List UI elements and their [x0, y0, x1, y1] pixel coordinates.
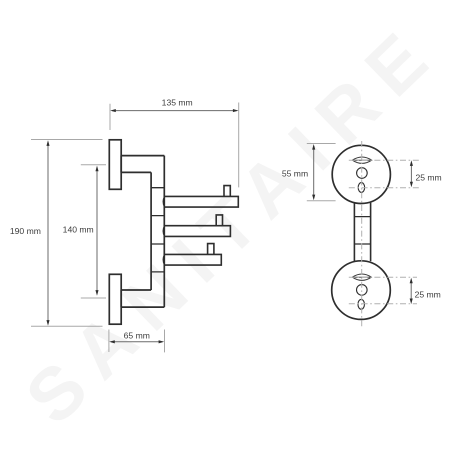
top slot line — [352, 159, 371, 161]
bottom screw hole — [357, 285, 368, 296]
centerline through bottom oval — [349, 303, 417, 305]
dim 135mm arrows — [110, 109, 238, 112]
dim 190mm line — [47, 142, 49, 323]
svg-text:190 mm: 190 mm — [10, 226, 41, 236]
dim 190mm extension lines — [31, 140, 103, 327]
svg-text:65 mm: 65 mm — [124, 330, 150, 340]
top screw slot — [352, 157, 371, 163]
svg-text:25 mm: 25 mm — [415, 172, 441, 182]
dim 65mm extension lines — [109, 330, 165, 353]
column joint lines — [151, 188, 164, 272]
svg-text:140 mm: 140 mm — [63, 225, 94, 235]
centerline through top oval — [349, 187, 420, 189]
hook peg 1 — [224, 186, 230, 197]
dim 55mm arrows — [312, 144, 315, 200]
hook arm 1 — [164, 196, 238, 207]
dim 65mm arrows — [109, 340, 164, 343]
bottom screw slot — [352, 274, 371, 280]
hook peg 2 — [216, 215, 222, 226]
dim 25mm bottom arrows — [410, 278, 413, 304]
centerline through top screw slot — [349, 159, 420, 161]
dim 140mm extension lines — [81, 165, 106, 298]
top mounting arm — [121, 156, 164, 173]
dim 55mm line — [313, 146, 315, 198]
svg-text:55 mm: 55 mm — [282, 168, 308, 178]
connecting bar — [354, 203, 370, 262]
dim 25mm bottom line — [410, 280, 412, 302]
bottom rosette circle — [332, 261, 391, 320]
wall plate top — [109, 140, 121, 190]
dim 140mm line — [96, 168, 98, 294]
centerline through bottom screw slot — [349, 276, 417, 278]
vertical centerline — [361, 141, 363, 327]
dim 25mm top line — [410, 163, 412, 185]
dim 140mm arrows — [95, 166, 98, 296]
dim 65mm line — [111, 341, 162, 343]
bottom oval hole — [358, 299, 365, 309]
dim 135mm line — [112, 110, 237, 112]
swivel column — [151, 156, 164, 308]
bottom slot line — [352, 276, 371, 278]
dim 190mm arrows — [46, 140, 49, 325]
top rosette circle — [332, 145, 390, 203]
dim 55mm extension lines — [307, 144, 336, 201]
hook arm 2 — [164, 226, 230, 237]
svg-text:135 mm: 135 mm — [162, 98, 193, 108]
svg-text:25 mm: 25 mm — [415, 290, 441, 300]
bottom mounting arm — [121, 290, 164, 307]
hook arm 3 — [164, 254, 221, 265]
top screw hole — [357, 168, 368, 179]
dim 25mm top arrows — [410, 160, 413, 187]
top oval hole — [358, 183, 365, 193]
bar joint lines — [354, 217, 370, 244]
dim 135mm extension lines — [110, 103, 239, 188]
hook peg 3 — [208, 244, 214, 255]
wall plate bottom — [109, 274, 121, 324]
